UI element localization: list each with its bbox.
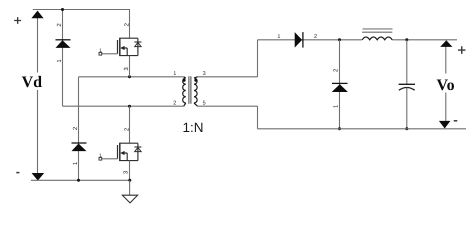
- diode D1 branch wire: [62, 10, 64, 107]
- output Vo arrow shaft: [445, 44, 447, 124]
- svg-text:Vo: Vo: [437, 77, 455, 94]
- svg-text:2: 2: [173, 100, 176, 106]
- capacitor C1 curved plate: [399, 88, 415, 91]
- junction dot D2 / bottom rail: [77, 179, 80, 182]
- diode D1 cathode bar: [56, 39, 71, 41]
- svg-text:1: 1: [277, 34, 280, 40]
- transformer T1 primary winding: [183, 77, 186, 106]
- svg-text:5: 5: [203, 100, 206, 106]
- MOSFET Q1 source lead: [129, 56, 131, 77]
- svg-text:1: 1: [173, 71, 176, 77]
- capacitor C1 branch wire bottom: [406, 88, 408, 129]
- diode D3 body: [295, 32, 302, 48]
- junction dot C1 / bottom rail: [405, 127, 408, 130]
- junction dot node B / Q1 source: [128, 75, 131, 78]
- diode D4 cathode bar: [332, 82, 348, 84]
- svg-text:1: 1: [99, 153, 102, 159]
- wire output bottom rail: [258, 128, 467, 130]
- wire secondary bottom corner: [257, 106, 259, 129]
- voltage source Vd arrow shaft: [37, 12, 39, 177]
- node B wire (Q1 source to transformer pin 1): [79, 76, 184, 78]
- MOSFET Q2 drain lead: [129, 106, 131, 143]
- MOSFET Q1 body: [118, 38, 142, 56]
- MOSFET Q1 gate lead: [102, 53, 118, 55]
- label + (input polarity): [14, 17, 21, 24]
- wire top rail (Vd+ bus): [33, 9, 130, 11]
- voltage source Vd arrow top head: [31, 11, 43, 19]
- MOSFET Q2 body: [118, 143, 142, 161]
- wire output top rail (right of inductor): [392, 39, 457, 41]
- transformer T1 secondary polarity dot: [194, 79, 197, 82]
- output Vo arrow bottom head: [439, 121, 451, 129]
- wire secondary top corner: [257, 40, 259, 77]
- MOSFET Q2 source lead: [129, 161, 131, 181]
- MOSFET Q2 gate port pin 1: [99, 153, 102, 160]
- diode D4 body: [332, 84, 348, 92]
- capacitor C1 branch wire top: [406, 40, 408, 85]
- svg-text:Vd: Vd: [22, 74, 43, 91]
- transformer T1 core: [189, 76, 191, 103]
- label - (input polarity): [16, 172, 19, 174]
- node A wire (D1 anode to transformer pin 2, Q2 drain): [63, 105, 184, 107]
- wire output top rail (left of inductor): [258, 39, 363, 41]
- inductor L1 core line lower: [362, 31, 392, 33]
- junction dot Q2 source / ground / bottom rail: [128, 179, 131, 182]
- junction dot node A / Q2 drain: [128, 105, 131, 108]
- inductor L1 core line upper: [363, 28, 393, 30]
- wire secondary bottom lead: [198, 105, 258, 107]
- svg-text:2: 2: [314, 34, 317, 40]
- svg-text:1:N: 1:N: [182, 120, 203, 135]
- diode D2 cathode bar: [72, 142, 87, 144]
- svg-text:1: 1: [99, 48, 102, 54]
- output Vo arrow top head: [440, 40, 452, 47]
- diode D2 body: [72, 144, 87, 152]
- MOSFET Q2 gate lead: [102, 158, 118, 160]
- ground lead: [129, 180, 131, 195]
- transformer T1 secondary winding: [194, 77, 198, 106]
- wire bottom rail (Vd- bus): [31, 179, 130, 181]
- label - (output polarity): [454, 120, 458, 122]
- label + (output polarity): [458, 46, 466, 54]
- svg-text:3: 3: [203, 71, 206, 77]
- junction dot D3 cathode node: [338, 38, 341, 41]
- junction dot D1 / top rail: [61, 8, 64, 11]
- diode D4 branch wire: [339, 40, 341, 129]
- wire secondary top lead: [198, 76, 258, 78]
- diode D2 branch wire: [78, 77, 80, 181]
- MOSFET Q1 gate port pin 1: [99, 48, 102, 55]
- junction dot L1 output node: [405, 38, 408, 41]
- junction dot D4 / bottom rail: [338, 127, 341, 130]
- MOSFET Q1 drain lead: [129, 10, 131, 39]
- transformer T1 primary polarity dot: [183, 79, 186, 82]
- capacitor C1 top plate: [399, 83, 415, 85]
- voltage source Vd arrow bottom head: [32, 173, 45, 181]
- diode D3 cathode bar: [302, 32, 304, 48]
- ground symbol: [122, 195, 137, 203]
- inductor L1 winding: [362, 37, 392, 40]
- diode D1 body: [56, 40, 71, 48]
